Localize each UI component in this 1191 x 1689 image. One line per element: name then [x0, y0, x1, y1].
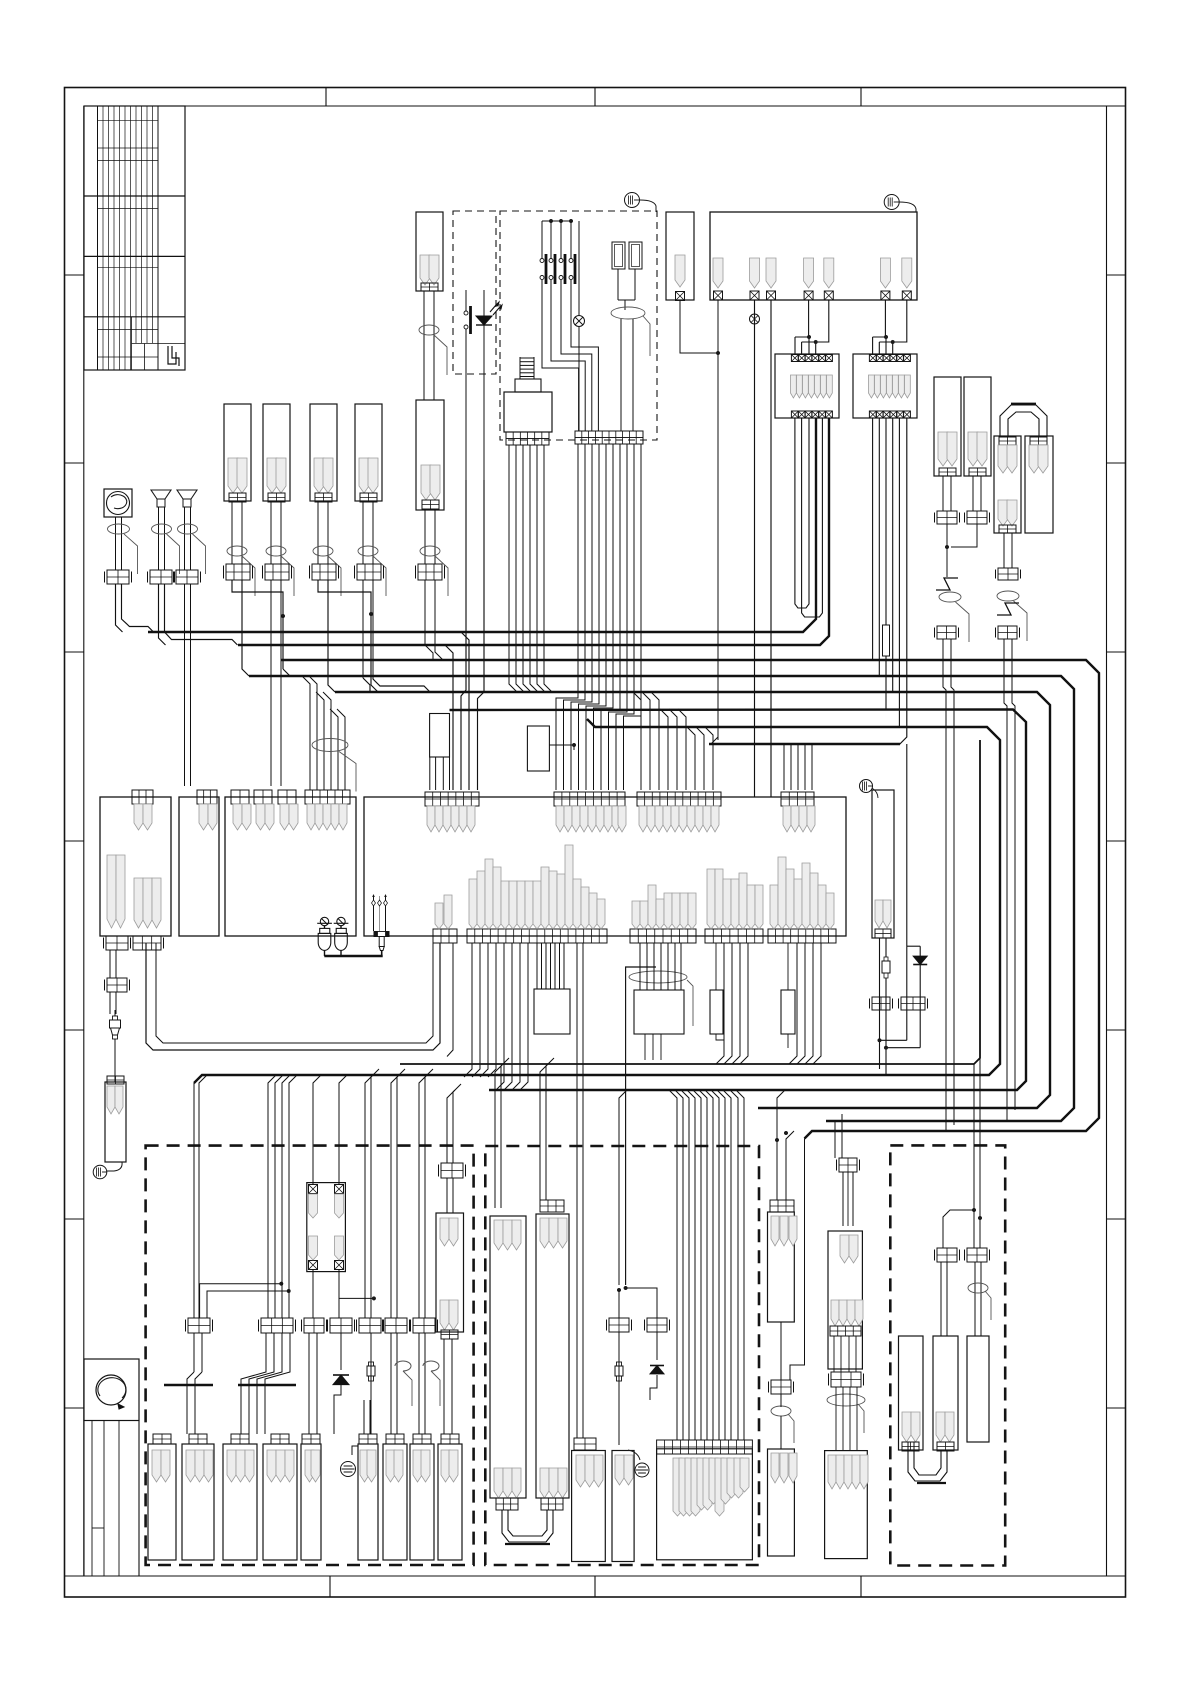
DL block B1: [188, 1318, 210, 1333]
connector CN4 leads: [362, 502, 364, 564]
relay K10 branch to bundle: [339, 1297, 374, 1299]
connector CN1 wires to bus: [232, 580, 283, 616]
D2 block: [901, 997, 925, 1010]
valve solenoid Y1 body: [504, 392, 552, 432]
sub box SB2: [634, 990, 684, 1034]
branch to left block: [943, 1210, 974, 1248]
connector CN2 pins: [267, 458, 277, 493]
DM block B9: [647, 1318, 667, 1332]
connector C pins: [576, 1455, 585, 1487]
border inner margin lines: [83, 106, 85, 1576]
M1 top comb: [132, 790, 153, 804]
spark plug symbol E1: [373, 896, 375, 931]
relay K3 bottom terminals: [869, 411, 876, 418]
thick bar above K13: [238, 1384, 296, 1386]
sub box SB4: [781, 990, 795, 1034]
connector X48 housing: [438, 1444, 462, 1560]
valve solenoid Y1 comb: [506, 432, 549, 445]
relay K10 pins: [309, 1194, 318, 1218]
connector X23 housing: [1025, 436, 1053, 533]
connector CN4 block: [357, 564, 381, 580]
relay K2 bottom terminals: [791, 411, 798, 418]
V1 leads: [879, 938, 881, 1069]
X22 zigzag: [997, 591, 1019, 601]
battery feed wires down: [942, 639, 944, 684]
M1 top pins: [134, 804, 143, 830]
M5 leads: [443, 1339, 445, 1434]
ground G3: [628, 1450, 640, 1460]
M4 bottom comb d: [768, 929, 836, 943]
connector CN2 block: [265, 564, 289, 580]
DL block B2: [261, 1318, 293, 1333]
drop wires to B: [540, 1064, 548, 1200]
connector B bottom pins: [540, 1468, 549, 1498]
main harness 12 wires: [669, 1090, 677, 1440]
V3 top pin: [840, 1235, 849, 1263]
horn B2 symbol: [177, 490, 197, 499]
bus line 7: [194, 719, 1000, 1083]
relay K3 wire 5: [898, 418, 900, 727]
motor M1 wires to bus: [116, 584, 123, 632]
connector A bottom pins: [494, 1468, 503, 1498]
M4 pins d: [783, 806, 791, 832]
drop wires group5: [419, 1075, 427, 1318]
motor M1 leads: [115, 517, 117, 570]
drop wires into DL: [193, 1083, 195, 1318]
column V3 feed: [834, 1121, 836, 1158]
P0 pins: [902, 1412, 911, 1442]
X50 pins: [771, 1453, 779, 1483]
relay K10 wires: [313, 1075, 321, 1184]
X22 wires down: [1003, 639, 1005, 700]
border outer frame: [65, 88, 1126, 1598]
DR U loop: [908, 1450, 947, 1481]
L wire right: [790, 1139, 805, 1381]
diode D3: [340, 1333, 342, 1370]
V2 pins: [771, 1216, 779, 1246]
V1 ground symbol: [860, 780, 873, 793]
M3 top comb b: [254, 790, 272, 804]
V2 block: [771, 1380, 791, 1394]
relay K2 top terminals: [791, 355, 798, 362]
M4 top comb d: [781, 792, 814, 806]
switch SW3: [560, 221, 562, 258]
relay K3 top terminals: [869, 355, 876, 362]
sub box SB3: [710, 990, 723, 1034]
M4 pins a: [427, 806, 435, 832]
DE1 wires to M4a: [461, 480, 466, 790]
DL block B4: [330, 1318, 352, 1333]
spark plug E3: [618, 1360, 620, 1390]
connector E pins: [673, 1458, 682, 1516]
DR connector P0: [899, 1336, 924, 1450]
module M5 housing: [436, 1213, 464, 1332]
connector X42 housing: [223, 1444, 257, 1560]
junction box M3: [225, 797, 356, 936]
connector CN1 housing: [224, 404, 251, 501]
sensor box B3 pin: [675, 255, 685, 287]
junction box M4: [364, 797, 846, 936]
M4 top comb b: [554, 792, 625, 806]
DR block BR: [967, 1248, 987, 1262]
connector CN4 housing: [355, 404, 382, 501]
DR right wire down: [974, 1262, 976, 1336]
bus line 9 return: [400, 740, 980, 1064]
connector X20 pins: [938, 432, 948, 466]
relay K10 housing: [307, 1183, 346, 1272]
switch comb: [575, 431, 643, 444]
ECU A1 wire 3 down: [770, 300, 772, 797]
M3 pins d: [307, 804, 315, 830]
switch bank wires to comb: [542, 330, 579, 431]
dashed enclosure DE2: [500, 211, 657, 440]
bottom-left grid: [91, 1421, 93, 1577]
connector X20 housing: [934, 377, 961, 476]
hook H4: [418, 1333, 420, 1434]
connector D housing: [612, 1451, 634, 1562]
connector X44 housing: [301, 1444, 321, 1560]
DL block B7: [413, 1318, 435, 1333]
M4 top comb a: [425, 792, 479, 806]
connector CN5 wires to bus: [425, 580, 433, 660]
dashed enclosure DM: [485, 1146, 759, 1565]
bundle to M3 strip: [302, 676, 310, 790]
connector CN3 housing: [310, 404, 337, 501]
connector C housing: [572, 1451, 606, 1562]
connector X51: [825, 1451, 868, 1559]
valve solenoid Y1 cap: [515, 379, 541, 392]
connector CN1 pins: [228, 458, 238, 493]
relay K2 wire to bus2: [828, 418, 830, 632]
border top dividers: [325, 88, 327, 107]
inline fuse F1: [885, 418, 887, 625]
switch SW1: [541, 221, 543, 258]
connector X45 housing: [358, 1444, 378, 1560]
connector CN1 block: [226, 564, 250, 580]
junction box M2: [179, 797, 219, 936]
horn B1 connector block: [150, 570, 172, 584]
relay K2 fingers: [790, 375, 796, 398]
connector X47 pins: [413, 1450, 422, 1482]
ground G1: [107, 1162, 122, 1171]
bus line 6: [450, 710, 1027, 1091]
SB2 lower wires: [644, 1034, 646, 1060]
diode D4: [650, 1366, 664, 1374]
horn B2 leads: [184, 507, 186, 570]
V3 leads down: [833, 1336, 835, 1372]
connector CN3 pins: [314, 458, 324, 493]
M3 pins a: [233, 804, 242, 830]
DL block B5: [359, 1318, 381, 1333]
connector X41 housing: [182, 1444, 214, 1560]
M4 bottom comb c: [705, 929, 763, 943]
horn B1 symbol: [151, 490, 171, 499]
M2 top pins: [199, 804, 208, 830]
module V3 housing: [828, 1231, 862, 1369]
dashed enclosure DE1: [453, 211, 496, 374]
SB2 gamma wire to D: [626, 967, 656, 1285]
V1 inline sensor: [882, 961, 890, 973]
drop wires to A: [495, 1064, 503, 1208]
pressure switch link wire: [324, 955, 382, 958]
connector E top strip: [657, 1440, 753, 1454]
connector X42 pins: [227, 1450, 236, 1482]
connector X45 pins: [360, 1450, 369, 1482]
connector CN2 leads: [270, 502, 272, 564]
bus line 2: [238, 418, 829, 645]
drop wire to D: [619, 1090, 627, 1285]
relay K2 wire to bus1: [815, 418, 817, 619]
M4 pins c: [639, 806, 647, 832]
valve solenoid Y1 thread: [520, 357, 534, 359]
column V2 feed: [777, 1090, 785, 1200]
connector X41 pins: [186, 1450, 195, 1482]
contact block leads: [617, 269, 619, 300]
bus line 1: [148, 418, 816, 632]
speaker SP2: [884, 195, 899, 210]
connector X20 leads: [942, 476, 944, 511]
connector CN3 leads: [317, 502, 319, 564]
branch to diode D4: [626, 1288, 657, 1318]
speaker SP1: [625, 193, 640, 208]
jumper arch W1: [1000, 405, 1047, 436]
sub box SB1: [534, 989, 570, 1034]
relay K2 lower jumper b: [802, 418, 823, 617]
connector CN4 wires down: [362, 580, 364, 678]
bus line 5: [335, 692, 1050, 1108]
V1 diode feed wire: [906, 744, 908, 946]
title block logo glyph: [168, 346, 176, 364]
ECU A1 wires to relay K3: [873, 300, 886, 337]
V3 block top: [839, 1158, 857, 1172]
connector B top pins: [540, 1218, 549, 1248]
vertical module V1: [872, 790, 894, 938]
M4 top comb c: [637, 792, 721, 806]
contact wires down: [620, 319, 622, 431]
M3 top comb c: [278, 790, 296, 804]
ECU A1 wire 1 down: [717, 300, 719, 740]
DR left wire down: [940, 1262, 942, 1336]
M4 strip feed wires right: [783, 744, 785, 790]
connector CN5 lower pins: [421, 465, 431, 500]
battery feed block: [937, 626, 956, 639]
contact block K1a: [612, 242, 625, 269]
battery feed zigzag: [936, 578, 958, 590]
pressure switch PS1: [320, 917, 328, 925]
connector C feed wires: [576, 943, 578, 1438]
connector X40 pins: [152, 1450, 161, 1482]
connector CN5 block: [418, 564, 442, 580]
junction box M1: [100, 797, 171, 936]
relay K10 terminals: [309, 1185, 318, 1194]
connector X22 leads: [1003, 533, 1005, 568]
connector CN4 pins: [359, 458, 369, 493]
M3 top comb d: [305, 790, 350, 804]
M3 top comb a: [231, 790, 249, 804]
connector CN3 wires to bus: [318, 580, 371, 614]
dashed enclosure DL: [146, 1146, 474, 1565]
horn B1 leads: [158, 507, 160, 570]
connector X44 pins: [305, 1450, 314, 1482]
M4 pins b: [556, 806, 564, 832]
switch SW2: [550, 221, 552, 258]
V1 pin: [875, 900, 883, 928]
connector X21 pins: [968, 432, 978, 466]
connector CN5 leads: [424, 509, 426, 564]
connector X30 pins: [107, 1086, 115, 1114]
X51 pins: [828, 1455, 836, 1489]
connector X21 housing: [964, 377, 991, 476]
DR block BL: [937, 1248, 957, 1262]
B1 branch wires: [200, 1284, 282, 1318]
P1 pins: [936, 1412, 945, 1442]
relay K3 housing: [853, 354, 917, 418]
motor M1 connector block: [107, 570, 129, 584]
ECU A1 wire 2 down: [754, 300, 756, 797]
border left fold marks: [65, 274, 84, 276]
connector X21 leads: [972, 476, 974, 511]
contact block K1b: [629, 242, 642, 269]
motor M1 symbol: [104, 489, 132, 517]
LED D1 arrows: [490, 305, 496, 312]
X21 wire joining X20 wire: [951, 524, 977, 547]
connector X43 pins: [267, 1450, 276, 1482]
relay K2 housing: [775, 354, 839, 418]
connector E housing: [657, 1449, 753, 1560]
solenoid Y1 wires down: [509, 445, 517, 692]
connector X50: [768, 1449, 795, 1556]
connector C comb: [574, 1438, 596, 1450]
hook H3: [390, 1333, 392, 1434]
drop wires group2: [268, 1075, 276, 1318]
SB3 SB4 wires: [716, 1034, 724, 1056]
M4 bottom comb a: [467, 929, 607, 943]
M3 pins b: [256, 804, 265, 830]
M5 top pins: [440, 1218, 449, 1246]
V2 lead: [780, 1322, 782, 1380]
horn B2 connector block: [176, 570, 198, 584]
relay K2 lower jumper a: [795, 418, 809, 608]
relay K3 wires down: [872, 418, 874, 660]
sensor box B3 wire: [680, 300, 718, 353]
ECU main box A1: [710, 212, 917, 300]
M5 bottom pins: [440, 1300, 449, 1330]
horn B2 wires down to connector X10: [184, 584, 186, 786]
connector X47 housing: [410, 1444, 434, 1560]
M1 inner pins left: [107, 855, 116, 928]
X22 lower block: [998, 626, 1017, 639]
M4 bottom comb b: [630, 929, 696, 943]
V2 housing: [768, 1212, 795, 1322]
relay K3 wire to M4 strip: [763, 418, 907, 744]
M3 bottom comb: [433, 929, 457, 943]
connector X23 top pins: [1030, 437, 1047, 445]
M3 pins c: [280, 804, 289, 830]
switch S1 contacts: [464, 311, 468, 315]
connector X30 housing: [105, 1082, 126, 1162]
M1 inline plug: [114, 1010, 116, 1016]
connector X48 pins: [441, 1450, 450, 1482]
spark plug E2: [370, 1333, 372, 1360]
V3 block bottom: [831, 1372, 861, 1387]
connector CN5 link leads: [423, 291, 425, 400]
bus line 3: [281, 660, 1099, 1139]
DM block B10: [609, 1318, 629, 1332]
bus line 8: [709, 743, 900, 745]
U loop DM: [502, 1510, 553, 1542]
connector CN1 leads: [231, 502, 233, 564]
diode D2 loop: [906, 946, 908, 1040]
title block table: [84, 106, 185, 370]
connector X46 pins: [386, 1450, 395, 1482]
ECU A1 pins: [713, 258, 723, 288]
ground G2: [352, 1446, 358, 1455]
sub wires below combs: [464, 943, 472, 1077]
connector X22 housing: [994, 436, 1021, 533]
connector CN2 housing: [263, 404, 290, 501]
junction label box LB2: [527, 726, 549, 771]
connector X22 bottom pins: [998, 500, 1008, 526]
bullet connector: [574, 316, 585, 327]
border right fold marks: [1107, 274, 1126, 276]
sensor box B3: [666, 212, 694, 300]
drop wires group4: [391, 1075, 399, 1318]
DR connector P1: [933, 1336, 958, 1450]
K6 feed wires: [363, 1400, 365, 1434]
connector CN3 block: [312, 564, 336, 580]
switch SW4: [570, 221, 572, 258]
bus line 4: [249, 676, 1074, 1121]
switch bank top rail: [542, 220, 571, 222]
connector A housing: [490, 1216, 526, 1498]
DL block B3: [304, 1318, 324, 1333]
drop wires group6: [447, 1090, 455, 1163]
LED D1: [476, 316, 492, 325]
V3 bottom pins: [831, 1300, 839, 1326]
pump symbol: [84, 1359, 139, 1421]
pressure switch PS2: [337, 917, 345, 925]
connector CN5 lower housing: [416, 400, 444, 510]
extra feeds to M4a: [445, 645, 453, 790]
DR feed wires: [973, 1064, 975, 1248]
V2 comb: [770, 1200, 794, 1212]
M1 right wires to bus10: [146, 943, 440, 1050]
connector D pins: [615, 1455, 624, 1485]
M2 top comb: [197, 790, 217, 804]
connector B housing: [536, 1214, 569, 1498]
DL block B8: [441, 1163, 463, 1178]
dashed enclosure DR: [890, 1145, 1005, 1565]
M4c lower wires: [716, 943, 724, 1064]
DL block B6: [385, 1318, 407, 1333]
thick bar above K11: [164, 1384, 213, 1386]
M1 bottom pins and leads: [109, 950, 111, 978]
bundle to M4c strip: [633, 692, 641, 790]
horn B1 wires to bus: [159, 584, 166, 645]
V1 block: [872, 997, 890, 1010]
connector X46 housing: [383, 1444, 407, 1560]
relay K3 fingers: [868, 375, 874, 398]
connector X22 top pins: [999, 437, 1016, 445]
connector CN5 upper housing: [416, 212, 443, 291]
connector X40 housing: [148, 1444, 176, 1560]
switch S1 wire A: [465, 290, 467, 311]
ECU A1 wires to relay K2: [795, 300, 809, 337]
M1 inner pins right: [134, 878, 143, 928]
junction label box LB1: [430, 714, 450, 758]
switch comb wires down: [556, 444, 578, 790]
connector B comb: [540, 1200, 564, 1212]
